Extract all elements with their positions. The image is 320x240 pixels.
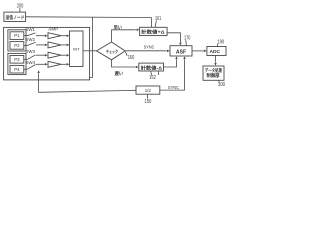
svg-text:SYNC: SYNC (144, 44, 155, 49)
amplifier A2 (48, 42, 61, 48)
count +delta box 161 (140, 27, 168, 35)
wire drop into +delta box top (151, 18, 153, 28)
wire branch down into analog box (90, 17, 93, 77)
box P3 (10, 56, 24, 64)
wire A2 to INT (61, 44, 66, 46)
wire SW2 to A2 (36, 44, 45, 46)
INT box (70, 31, 84, 67)
wire ADC to processor (215, 56, 217, 63)
arrowhead ADC into processor (214, 63, 217, 66)
amplifier A4 (48, 61, 61, 67)
wire divider to switches control (39, 74, 136, 93)
wire ASF to ADC (192, 50, 204, 52)
svg-text:P2: P2 (14, 43, 20, 48)
wire P4 to SW4 (24, 68, 28, 70)
wire P3 to SW3 (24, 58, 28, 60)
switch SW3 blade (28, 55, 36, 59)
svg-text:AMP: AMP (48, 27, 58, 32)
wire INT to diamond (83, 50, 97, 52)
wire A1 to INT (61, 35, 66, 37)
arrowhead late into -delta (136, 66, 139, 69)
svg-text:制御部: 制御部 (207, 72, 221, 79)
svg-text:SW4: SW4 (25, 60, 35, 65)
svg-text:P4: P4 (14, 67, 20, 72)
box P2 (10, 42, 24, 50)
svg-text:300: 300 (218, 82, 225, 88)
wire node to +delta (top long wire) (26, 16, 152, 19)
wire diamond up branch (early) (112, 30, 136, 42)
divider 1/2 box 150 (136, 86, 160, 94)
comparator diamond 160 (97, 42, 126, 60)
svg-text:SYNC: SYNC (168, 85, 180, 90)
arrowhead SW1 to A1 (45, 34, 48, 37)
wire SW1 to A1 (36, 35, 45, 37)
svg-text:ASF: ASF (176, 49, 186, 55)
svg-text:160: 160 (128, 55, 135, 61)
leader 162 (150, 71, 153, 75)
svg-text:P1: P1 (14, 33, 20, 38)
group box P3/P4 (8, 53, 26, 74)
svg-text:P3: P3 (14, 57, 20, 62)
svg-text:150: 150 (144, 99, 151, 105)
wire P2 to SW2 (24, 44, 28, 46)
svg-text:遅い: 遅い (115, 70, 124, 77)
amplifier A1 (48, 33, 61, 39)
arrowhead early into +delta (137, 29, 140, 32)
svg-text:190: 190 (217, 39, 224, 45)
wire SW3 to A3 (36, 54, 45, 56)
arrowhead SW3 to A3 (45, 54, 48, 57)
arrowhead -delta into ASF bottom (175, 56, 178, 59)
amplifier A3 (48, 52, 61, 58)
leader 161 (155, 20, 156, 27)
wire diamond down branch (late) (112, 60, 136, 67)
leader 170 (185, 40, 188, 45)
switch SW1 blade (28, 33, 36, 36)
svg-text:SW2: SW2 (25, 37, 35, 42)
arrowhead divider SYNC into ASF bottom (183, 56, 186, 59)
tick on -delta box bottom (158, 71, 160, 75)
svg-text:計数値-Δ: 計数値-Δ (141, 64, 162, 71)
wire +delta to ASF (167, 33, 180, 43)
arrowhead A2 to INT (67, 44, 70, 47)
svg-text:送信ノード: 送信ノード (5, 14, 25, 21)
leader 150 (147, 94, 149, 98)
svg-text:ADC: ADC (210, 49, 221, 55)
svg-text:SW3: SW3 (25, 49, 35, 54)
arrowhead A3 to INT (67, 54, 70, 57)
wire A3 to INT (61, 54, 66, 56)
arrowhead control into switches (37, 70, 40, 73)
leader 160 (126, 52, 128, 56)
arrowhead ASF into ADC (204, 50, 207, 53)
leader 190 (217, 44, 219, 47)
svg-text:早い: 早い (114, 24, 123, 31)
arrowhead SYNC into ASF left (167, 50, 170, 53)
box P1 (10, 32, 24, 40)
svg-text:チェック: チェック (106, 48, 118, 54)
wire P1 to SW1 (24, 35, 28, 37)
arrowhead SW2 to A2 (45, 44, 48, 47)
svg-text:INT: INT (73, 47, 80, 51)
arrowhead SW4 to A4 (45, 63, 48, 66)
svg-text:SW1: SW1 (25, 27, 35, 32)
arrowhead A4 to INT (67, 63, 70, 66)
svg-text:計数値+Δ: 計数値+Δ (141, 29, 164, 36)
arrowhead A1 to INT (67, 34, 70, 37)
svg-text:170: 170 (184, 36, 191, 42)
arrowhead +delta into ASF top (179, 43, 182, 46)
svg-text:200: 200 (17, 4, 24, 10)
switch SW4 blade (28, 65, 36, 70)
svg-text:1/2: 1/2 (145, 88, 152, 93)
leader 200 (19, 8, 21, 12)
box P4 (10, 65, 24, 73)
wire -delta to ASF (164, 60, 177, 68)
wire diamond SYNC to ASF (125, 50, 166, 52)
ASF box 170 (170, 46, 192, 56)
wire A4 to INT (61, 63, 66, 65)
group box P1/P2 (8, 30, 26, 51)
count -delta box 162 (139, 63, 164, 71)
node box 200 (transmitter node) (4, 12, 26, 21)
ADC box 190 (207, 47, 226, 56)
data processing box 300 (203, 66, 224, 80)
wire SW4 to A4 (36, 63, 45, 65)
leader 300 (218, 80, 221, 82)
outer analog receiver box (4, 27, 90, 80)
wire divider to ASF (SYNC) (160, 60, 185, 91)
svg-text:161: 161 (155, 16, 161, 22)
switch SW2 blade (28, 42, 36, 45)
svg-text:162: 162 (149, 75, 156, 81)
